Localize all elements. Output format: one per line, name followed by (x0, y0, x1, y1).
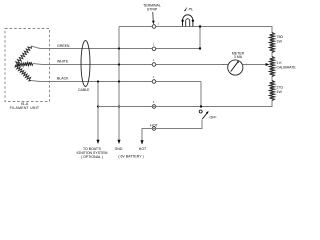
junction dot green end (199, 47, 201, 49)
svg-text:−: − (223, 63, 225, 67)
filament winding L1 (three coils) (15, 46, 33, 81)
svg-text:CABLE: CABLE (78, 88, 90, 92)
svg-text:( 6V BATTERY ): ( 6V BATTERY ) (118, 155, 143, 159)
svg-text:FILAMENT UNIT: FILAMENT UNIT (10, 106, 40, 110)
terminal 5 (152, 105, 156, 109)
svg-text:1W: 1W (277, 40, 283, 44)
junction dot switch pole (200, 105, 202, 107)
wire: black jumper down to switch (200, 82, 202, 108)
svg-text:BLACK: BLACK (57, 77, 69, 81)
wire: vertical to boat ground (from black lead) (97, 82, 99, 141)
filament unit dashed enclosure (5, 29, 50, 102)
wire: resistor return row (98, 106, 273, 108)
svg-text:HOT: HOT (150, 124, 158, 128)
svg-text:HOT: HOT (139, 147, 147, 151)
svg-text:1 K: 1 K (277, 61, 283, 65)
wire: battery hot row (142, 120, 202, 145)
resistor chain vertical connects (271, 27, 273, 34)
svg-text:OFF: OFF (210, 116, 217, 120)
svg-text:CALIBRATE: CALIBRATE (277, 66, 297, 70)
svg-text:3 MA: 3 MA (234, 55, 243, 59)
svg-text:GREEN: GREEN (57, 44, 70, 48)
wire: green jumper up to lamp (199, 27, 201, 49)
pilot lamp PL (182, 15, 192, 27)
label PL with pointer (184, 7, 188, 12)
wire white lead (33, 64, 228, 65)
junction dots on boat-gnd vertical (97, 80, 99, 82)
terminal 4 (152, 80, 156, 84)
potentiometer R2 calibrate (270, 57, 275, 77)
wire: meter to calibrate wiper (243, 64, 267, 66)
cable ellipse (81, 41, 90, 87)
svg-text:STRIP: STRIP (147, 8, 158, 12)
svg-text:27Ω: 27Ω (277, 86, 284, 90)
svg-text:GND: GND (115, 147, 123, 151)
terminal 6 (152, 127, 156, 131)
wire black lead (31, 81, 201, 82)
terminal 3 (152, 63, 156, 67)
svg-text:1W: 1W (277, 90, 283, 94)
resistor R3 (270, 81, 275, 101)
svg-text:( OPTIONAL ): ( OPTIONAL ) (81, 155, 103, 159)
svg-text:PL: PL (189, 7, 194, 12)
resistor R1 (270, 33, 275, 53)
terminal 2 (152, 47, 156, 51)
wire: pilot lamp feeder (top) (119, 26, 273, 28)
terminal 1 (152, 25, 156, 29)
switch S1 on-off (199, 110, 202, 113)
svg-text:WHITE: WHITE (57, 60, 69, 64)
svg-text:75Ω: 75Ω (277, 35, 284, 39)
wire green lead (31, 46, 200, 49)
arrow from terminal strip label (152, 12, 154, 22)
junction dot lamp wire (199, 25, 201, 27)
junction dots on gnd vertical (118, 47, 120, 49)
meter M1 (228, 60, 243, 75)
wire: vertical gnd line (from pilot lamp wire) (118, 27, 120, 141)
